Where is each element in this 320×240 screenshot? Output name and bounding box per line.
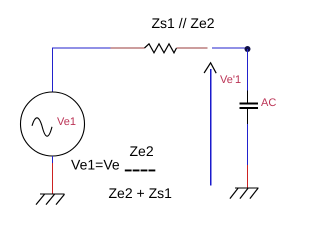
capacitor bottom plate: [239, 107, 258, 109]
ground left: [36, 194, 65, 205]
label Ve1: [57, 116, 76, 128]
svg-text:Ze2 + Zs1: Ze2 + Zs1: [109, 185, 173, 201]
label Zs1 // Ze2: [152, 15, 215, 31]
wire blue vertical from top net down to source top: [52, 48, 54, 93]
junction node dot: [245, 46, 251, 52]
wire red vertical down to right ground: [247, 165, 249, 188]
capacitor C (AC) top stub: [247, 91, 249, 103]
resistor Zs1 // Ze2 zigzag body: [145, 44, 177, 53]
svg-text:Ze2: Ze2: [130, 143, 154, 159]
label AC: [261, 97, 276, 109]
wire red vertical down to left ground: [52, 163, 54, 194]
wire blue vertical from junction down to capacitor: [247, 49, 249, 91]
svg-text:AC: AC: [261, 97, 276, 109]
formula numerator Ze2: [130, 143, 154, 159]
svg-text:Zs1 // Ze2: Zs1 // Ze2: [152, 15, 215, 31]
formula denominator Ze2 + Zs1: [109, 185, 173, 201]
wire blue horizontal right segment to junction: [212, 47, 248, 49]
wire dark-red segment into resistor left lead: [111, 47, 145, 49]
formula fraction bar: [125, 170, 156, 172]
capacitor bottom stub: [247, 109, 249, 124]
arrow Ve'1 shaft: [210, 69, 212, 186]
arrow Ve'1 head: [204, 63, 216, 73]
label Ve'1: [220, 74, 241, 86]
svg-text:Ve1: Ve1: [57, 116, 76, 128]
svg-text:Ve'1: Ve'1: [220, 74, 241, 86]
ground right: [230, 188, 259, 199]
wire blue horizontal top-left segment: [52, 47, 111, 49]
source Ve1 circle: [21, 92, 85, 156]
capacitor top plate: [239, 102, 258, 104]
formula Ve1=Ve: [71, 157, 120, 173]
resistor right lead dark-red wire: [177, 47, 208, 49]
svg-text:Ve1=Ve: Ve1=Ve: [71, 157, 120, 173]
wire blue stub below source: [52, 156, 54, 163]
source sine wave symbol: [32, 118, 52, 136]
wire blue vertical below capacitor: [247, 124, 249, 165]
